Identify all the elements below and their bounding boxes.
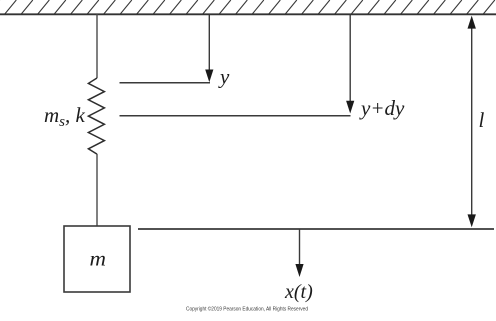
wire: rod from spring bottom to mass [96,154,98,226]
arrow x(t) [295,229,303,277]
label x(t) [284,281,313,303]
datum line (bottom horizontal) [138,228,494,230]
label m [90,249,107,271]
svg-text:m: m [90,249,107,271]
arrow y [205,15,213,82]
label y+dy [359,96,405,120]
svg-text:Copyright ©2019 Pearson Educat: Copyright ©2019 Pearson Education, All R… [186,306,308,313]
label y [218,65,230,89]
arrow y+dy [346,15,354,114]
ceiling hatching [0,0,496,14]
label m_s, k [44,103,86,130]
reference line for y+dy [120,115,351,117]
svg-text:x(t): x(t) [284,281,313,303]
copyright notice [186,306,308,313]
label l [479,108,485,132]
svg-text:y: y [218,65,230,89]
ceiling line [0,13,496,15]
svg-text:y+dy: y+dy [359,96,405,120]
arrow l (double-headed) [468,16,476,228]
svg-text:l: l [479,108,485,132]
svg-text:ms, k: ms, k [44,103,86,130]
mass block m [64,226,130,292]
wire: rod from ceiling to spring top [96,14,98,78]
spring m_s,k [88,78,104,154]
reference line for y [120,82,211,84]
